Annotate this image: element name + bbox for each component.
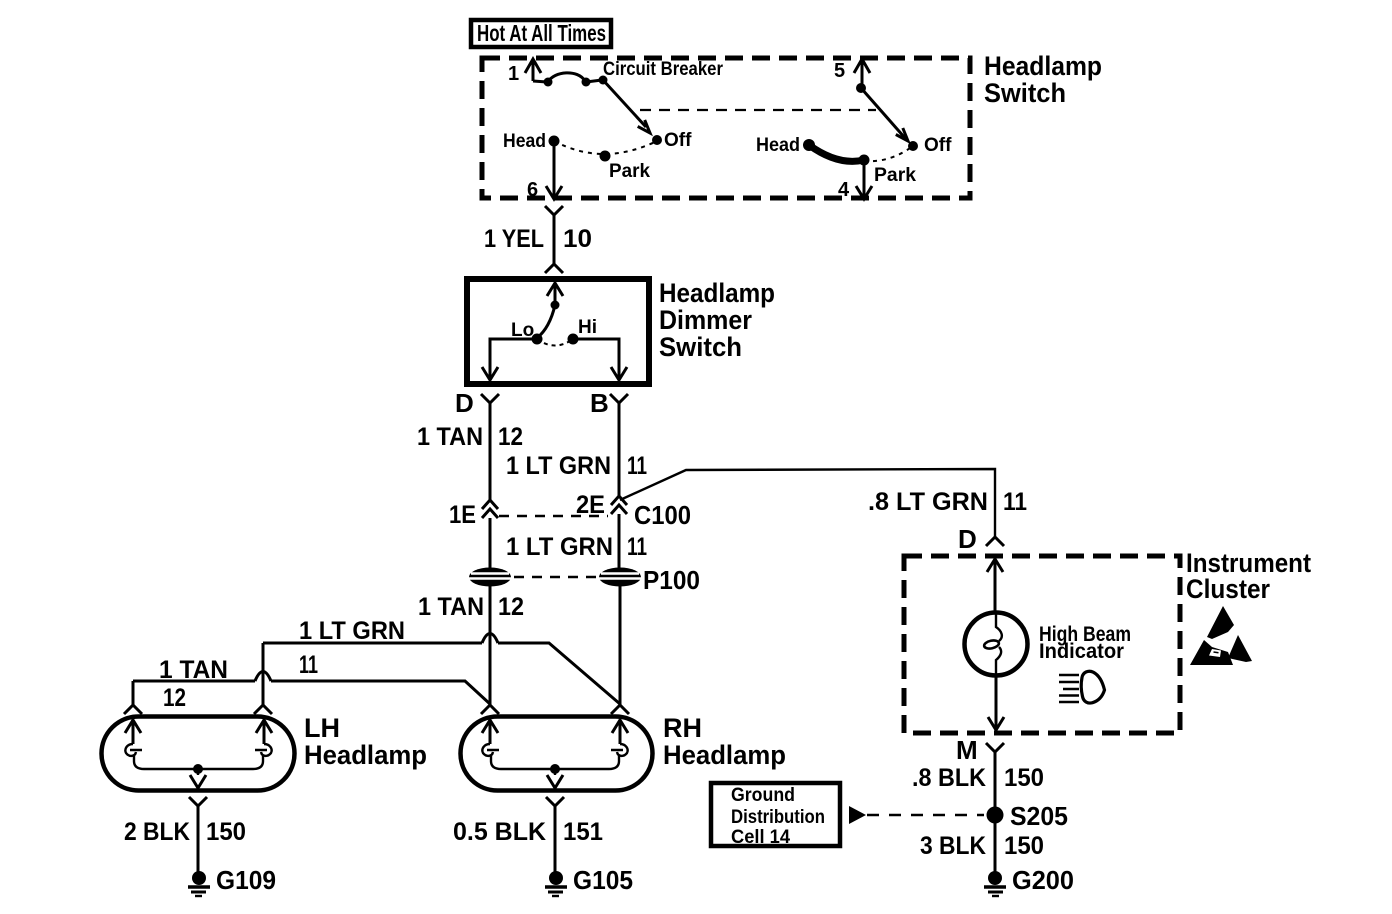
svg-text:11: 11	[627, 452, 647, 480]
svg-text:LH: LH	[304, 713, 340, 743]
fuse label Hot At All Times	[471, 20, 611, 47]
svg-text:Ground: Ground	[731, 785, 795, 806]
svg-text:1 LT GRN: 1 LT GRN	[506, 533, 613, 561]
svg-text:Park: Park	[609, 161, 650, 182]
LH right filament leg	[204, 755, 263, 769]
svg-text:1 TAN: 1 TAN	[418, 593, 484, 621]
node pivot (right)	[856, 83, 866, 93]
svg-text:Indicator: Indicator	[1039, 639, 1125, 663]
Headlamp Switch label	[984, 51, 1102, 108]
svg-text:G105: G105	[573, 865, 633, 895]
svg-text:150: 150	[206, 818, 246, 846]
LH left filament coil	[125, 744, 142, 756]
svg-text:D: D	[958, 524, 977, 554]
high beam indicator bulb	[965, 613, 1028, 677]
fork above LH left terminal	[124, 705, 142, 714]
node Head (left)	[549, 136, 560, 147]
svg-text:2 BLK: 2 BLK	[124, 818, 190, 846]
circuit breaker CB	[533, 73, 608, 87]
LH output arrow	[190, 775, 206, 788]
node Park (left)	[600, 151, 611, 162]
RH left filament coil	[482, 744, 499, 756]
P100 dashed line	[514, 576, 596, 579]
Hi output arrow	[611, 367, 627, 380]
dimmer input arrow	[547, 283, 563, 304]
svg-text:Off: Off	[924, 135, 952, 156]
svg-text:Park: Park	[874, 165, 916, 186]
svg-text:RH: RH	[663, 713, 702, 743]
svg-text:.8 BLK: .8 BLK	[912, 764, 986, 792]
node Park (right)	[859, 155, 870, 166]
high beam icon	[1059, 671, 1105, 703]
wire 2E to P100	[618, 514, 621, 569]
svg-text:2E: 2E	[576, 491, 605, 519]
fork below cluster pin M	[986, 743, 1004, 752]
lt grn riser to LH right terminal	[262, 643, 265, 705]
svg-text:4: 4	[838, 179, 850, 201]
headlamp dimmer switch box	[467, 279, 649, 384]
svg-text:Headlamp: Headlamp	[659, 278, 775, 308]
RH left filament leg	[491, 755, 550, 769]
hop arc on lt grn over tan wire	[482, 634, 498, 644]
dashed splice link	[867, 814, 984, 817]
svg-text:G109: G109	[216, 865, 276, 895]
headlamp switch box (dashed)	[482, 58, 970, 198]
fork below pin D	[481, 394, 499, 403]
connector fork above dimmer	[545, 264, 563, 273]
svg-text:Head: Head	[756, 135, 800, 156]
node Hi	[568, 334, 579, 345]
svg-text:Cluster: Cluster	[1186, 574, 1270, 604]
wire D tan upper	[489, 403, 492, 500]
Instrument Cluster label	[1186, 548, 1311, 604]
svg-text:Distribution: Distribution	[731, 807, 825, 828]
svg-text:Headlamp: Headlamp	[663, 740, 786, 770]
wire 1 YEL 10	[553, 215, 556, 264]
LH headlamp body	[102, 717, 295, 791]
wire 2 BLK 150	[197, 806, 200, 872]
node Off (right)	[908, 141, 918, 151]
svg-text:11: 11	[627, 533, 647, 561]
svg-text:Circuit Breaker: Circuit Breaker	[603, 59, 724, 80]
splice S205	[987, 807, 1004, 824]
wire lt grn P100 to RH right terminal	[619, 586, 622, 705]
svg-text:150: 150	[1004, 832, 1044, 860]
LH left filament leg	[134, 755, 193, 769]
headlamp switch internal dashed link	[640, 109, 876, 111]
dashed travel arc Head-Park-Off	[554, 141, 657, 154]
dashed arc Lo-Hi	[537, 339, 573, 346]
fork above LH right terminal	[254, 705, 272, 714]
node Off (left)	[652, 135, 662, 145]
fork below pin B	[610, 394, 628, 403]
svg-text:D: D	[455, 388, 474, 418]
svg-text:0.5 BLK: 0.5 BLK	[453, 818, 546, 846]
branch wire to instrument cluster	[620, 469, 995, 536]
connector fork below pin 6	[545, 206, 563, 215]
svg-text:12: 12	[498, 423, 523, 451]
svg-text:5: 5	[834, 60, 845, 82]
svg-text:1E: 1E	[449, 501, 476, 529]
LH common node	[193, 764, 203, 774]
svg-text:151: 151	[563, 818, 603, 846]
svg-text:Headlamp: Headlamp	[304, 740, 427, 770]
RH right filament arrow	[612, 720, 628, 744]
svg-text:C100: C100	[634, 500, 691, 530]
cluster output arrow	[988, 717, 1004, 730]
Headlamp Dimmer Switch label	[659, 278, 775, 362]
svg-text:1: 1	[508, 63, 519, 85]
RH Headlamp label	[663, 713, 786, 770]
off-page arrow to ground distribution	[849, 806, 866, 824]
wire .8 BLK 150	[994, 752, 997, 872]
grommet P100 right	[599, 568, 641, 587]
svg-text:Headlamp: Headlamp	[984, 51, 1102, 81]
tan riser to LH left terminal	[132, 681, 135, 705]
pin 6 arrow	[546, 186, 562, 199]
svg-text:Hi: Hi	[578, 317, 597, 338]
wire 0.5 BLK 151	[554, 806, 557, 872]
pin 4 arrow	[856, 186, 872, 199]
fork above RH right terminal	[611, 705, 629, 714]
svg-text:Switch: Switch	[984, 78, 1066, 108]
dimmer pivot node	[551, 301, 560, 310]
pin 1 arrow	[525, 59, 541, 81]
svg-text:11: 11	[299, 651, 318, 679]
connector C100 chevrons 1E	[482, 500, 498, 518]
wire tan P100 to RH left terminal	[489, 586, 492, 705]
wire B lt grn upper	[618, 403, 621, 497]
svg-text:10: 10	[563, 225, 592, 253]
svg-text:Off: Off	[664, 130, 692, 151]
wiper blade Head to Park (thick)	[803, 139, 864, 161]
connector C100 chevrons 2E	[611, 496, 627, 514]
fork below RH headlamp	[546, 797, 564, 806]
High Beam Indicator label	[1039, 622, 1131, 663]
LH right filament arrow	[256, 720, 272, 744]
RH right filament coil	[611, 744, 628, 756]
ground distribution box	[711, 783, 840, 848]
Hi output wire	[573, 339, 619, 377]
wire 1E to P100	[489, 518, 492, 569]
svg-text:1 LT GRN: 1 LT GRN	[299, 617, 405, 645]
ground G200	[984, 871, 1006, 896]
svg-text:3 BLK: 3 BLK	[920, 832, 986, 860]
svg-text:150: 150	[1004, 764, 1044, 792]
bulb output wire	[995, 676, 998, 727]
cluster input arrow	[987, 559, 1003, 613]
svg-text:Switch: Switch	[659, 332, 742, 362]
LH common leg	[193, 769, 204, 775]
RH headlamp body	[461, 717, 653, 791]
svg-text:6: 6	[527, 179, 538, 201]
RH output arrow	[547, 775, 563, 788]
switch blade 5 to Off	[861, 88, 908, 141]
RH common leg	[550, 769, 560, 775]
grommet P100 left	[469, 568, 511, 587]
svg-text:1 LT GRN: 1 LT GRN	[506, 452, 611, 480]
svg-text:Head: Head	[503, 131, 546, 152]
Lo output wire	[490, 339, 537, 377]
svg-text:M: M	[956, 735, 978, 765]
instrument cluster box (dashed)	[904, 556, 1180, 733]
ESD symbol	[1190, 606, 1252, 665]
svg-text:Hot At All Times: Hot At All Times	[477, 20, 606, 46]
ground G109	[188, 871, 210, 896]
svg-text:Cell 14: Cell 14	[731, 827, 790, 848]
fork below LH headlamp	[189, 797, 207, 806]
svg-text:S205: S205	[1010, 801, 1068, 831]
Lo output arrow	[482, 367, 498, 380]
svg-text:B: B	[590, 388, 609, 418]
RH common node	[550, 764, 560, 774]
svg-text:12: 12	[498, 593, 524, 621]
svg-text:G200: G200	[1012, 865, 1074, 895]
fork above RH left terminal	[481, 705, 499, 714]
dimmer blade to Lo	[537, 305, 555, 338]
svg-text:12: 12	[163, 684, 186, 712]
lt grn horizontal wire with hop over tan	[263, 643, 620, 704]
LH left filament arrow	[125, 720, 141, 744]
RH right filament leg	[560, 755, 619, 769]
dashed travel arc Park-Off (right)	[864, 146, 913, 161]
LH Headlamp label	[304, 713, 427, 770]
C100 dashed line	[499, 515, 608, 518]
RH left filament arrow	[482, 720, 498, 744]
pin 6 wire	[553, 141, 556, 196]
svg-text:1 YEL: 1 YEL	[484, 225, 544, 253]
pin 4 wire	[863, 160, 866, 196]
svg-text:P100: P100	[643, 565, 700, 595]
ground G105	[545, 871, 567, 896]
svg-text:11: 11	[1003, 488, 1027, 516]
fork above instrument cluster pin D	[986, 537, 1004, 546]
pin 5 arrow	[854, 59, 870, 88]
tan horizontal wire with hop over lt grn riser	[133, 681, 490, 704]
svg-text:1 TAN: 1 TAN	[417, 423, 483, 451]
node Lo	[532, 334, 543, 345]
LH right filament coil	[255, 744, 272, 756]
svg-text:1 TAN: 1 TAN	[159, 656, 228, 684]
switch blade 1 to Off	[603, 80, 650, 133]
svg-text:Dimmer: Dimmer	[659, 305, 752, 335]
svg-text:.8 LT GRN: .8 LT GRN	[868, 488, 988, 516]
hop arc on tan over lt grn riser	[255, 672, 271, 682]
